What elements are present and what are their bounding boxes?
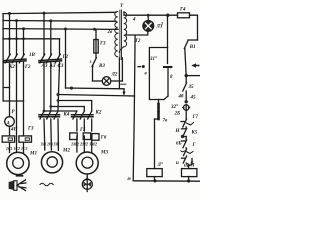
wire motor3 leads bbox=[76, 136, 78, 152]
fuse F3 lighting bbox=[94, 29, 98, 57]
svg-text:Г4: Г4 bbox=[179, 8, 186, 13]
contact blade bbox=[181, 150, 185, 153]
contactor K4 contacts (motor3) bbox=[72, 111, 94, 131]
wire interlock line to rail bbox=[58, 95, 135, 97]
right chain contacts bbox=[181, 64, 200, 168]
motor M2 bbox=[41, 152, 62, 173]
pump symbol bbox=[82, 175, 92, 192]
svg-text:35: 35 bbox=[188, 85, 195, 90]
plug socket symbol bbox=[184, 105, 189, 110]
svg-text:К5: К5 bbox=[191, 131, 198, 136]
motor M1 bbox=[7, 152, 29, 174]
svg-text:7в: 7в bbox=[163, 119, 169, 124]
switch V3 bbox=[91, 58, 96, 82]
wire bus L2 bbox=[3, 20, 116, 23]
thermal relay RT7 heater box bbox=[92, 134, 99, 141]
svg-text:ЛЗ: ЛЗ bbox=[156, 25, 163, 30]
svg-text:Т2: Т2 bbox=[135, 39, 141, 44]
ground arrow bbox=[121, 84, 126, 96]
svg-text:6Б: 6Б bbox=[176, 142, 183, 147]
node bus junctions bbox=[8, 12, 96, 41]
svg-text:А: А bbox=[6, 122, 11, 127]
wire bus L4 feeder bbox=[3, 38, 60, 40]
svg-text:4: 4 bbox=[132, 18, 136, 23]
svg-text:Г2: Г2 bbox=[24, 65, 31, 70]
contactor K1 lower contacts (motor2) bbox=[39, 111, 60, 151]
wire motor1 leads bbox=[9, 142, 11, 152]
svg-text:Г6: Г6 bbox=[100, 136, 107, 141]
svg-text:В3: В3 bbox=[98, 64, 105, 69]
svg-text:А3: А3 bbox=[49, 64, 56, 69]
lamp L3 signal (filled) bbox=[126, 14, 153, 35]
svg-text:1М1 2М1 3М1: 1М1 2М1 3М1 bbox=[41, 141, 60, 146]
svg-text:С3: С3 bbox=[58, 64, 64, 69]
contact N bbox=[182, 128, 186, 130]
svg-text:М3: М3 bbox=[100, 151, 108, 156]
svg-text:Л2: Л2 bbox=[111, 73, 118, 78]
contactor coil K1 bbox=[147, 169, 162, 177]
svg-text:1М2 2М2 3М2: 1М2 2М2 3М2 bbox=[71, 142, 98, 147]
wire bus L1 bbox=[3, 12, 116, 13]
wire lower strap bbox=[3, 100, 23, 102]
svg-text:Г3: Г3 bbox=[99, 42, 106, 47]
svg-text:з: з bbox=[89, 60, 92, 65]
svg-text:А3: А3 bbox=[41, 64, 48, 69]
plug connector 32 dashes bbox=[155, 100, 159, 169]
wire control left rail bbox=[133, 36, 135, 181]
svg-text:м: м bbox=[126, 177, 131, 182]
svg-text:Г3: Г3 bbox=[27, 127, 34, 132]
node with right stub bbox=[185, 74, 188, 77]
svg-text:К2: К2 bbox=[8, 65, 15, 70]
svg-text:2Б: 2Б bbox=[174, 112, 182, 117]
svg-text:М1: М1 bbox=[29, 152, 37, 157]
wire bottom rail bbox=[133, 180, 200, 182]
svg-text:и: и bbox=[176, 161, 179, 166]
fuse F4 bbox=[178, 13, 190, 18]
wire motor1 phase drops bbox=[9, 14, 11, 56]
grinding wheel symbol bbox=[9, 176, 26, 191]
transformer T secondary winding bbox=[124, 12, 127, 47]
svg-text:Л: Л bbox=[190, 164, 195, 169]
svg-text:К2: К2 bbox=[95, 111, 102, 116]
contact 6B bbox=[182, 140, 186, 142]
svg-text:32°: 32° bbox=[170, 105, 178, 110]
svg-text:31°: 31° bbox=[149, 57, 157, 62]
ammeter A bbox=[5, 117, 15, 127]
floating ref arrow bbox=[193, 64, 199, 67]
svg-text:Л°: Л° bbox=[157, 163, 163, 168]
switch V1 bbox=[184, 40, 197, 76]
svg-text:К4: К4 bbox=[63, 113, 70, 118]
wire left rail bbox=[2, 14, 4, 101]
svg-text:2в: 2в bbox=[107, 30, 114, 35]
wire bus L3 bbox=[3, 28, 118, 31]
node v (floating dot) bbox=[138, 66, 141, 68]
plug connector upper (bar+arrow) bbox=[164, 66, 174, 100]
contactor K1 main contacts (motor1 group) bbox=[4, 54, 26, 66]
coolant wave symbol bbox=[40, 183, 53, 186]
wire control feed to fuse F4 bbox=[124, 12, 178, 15]
thermal relay RT2 heater box bbox=[19, 136, 32, 142]
transformer T primary winding bbox=[115, 12, 118, 34]
wire ammeter branch stub bbox=[3, 87, 9, 89]
wire bypass box loop bbox=[149, 48, 167, 100]
node bbox=[185, 100, 188, 103]
lamp L2 local light bbox=[93, 58, 123, 89]
wire motor2 phase drops bbox=[43, 13, 45, 55]
svg-text:Г5: Г5 bbox=[79, 128, 86, 133]
svg-text:1В: 1В bbox=[29, 53, 36, 58]
wire motor1 phases to thermal bbox=[9, 66, 11, 117]
contact cluster bbox=[181, 121, 185, 123]
contact lower bbox=[182, 157, 186, 159]
contactor coil K2 bbox=[182, 169, 197, 177]
svg-text:4Н: 4Н bbox=[10, 128, 19, 133]
svg-text:В1: В1 bbox=[189, 45, 196, 50]
wire secondary ground line bbox=[66, 87, 125, 90]
thermal relay RT1 heater box bbox=[2, 136, 14, 142]
svg-text:45: 45 bbox=[190, 96, 197, 101]
middle chain: lamp branch down bbox=[167, 15, 169, 63]
svg-text:Г7: Г7 bbox=[192, 115, 199, 120]
motor M3 bbox=[76, 152, 98, 174]
transformer T core bbox=[119, 10, 121, 60]
svg-text:и: и bbox=[184, 164, 187, 169]
svg-text:4б: 4б bbox=[178, 95, 185, 100]
svg-text:Г2: Г2 bbox=[62, 55, 69, 60]
wire cascade feeds to motor3 contacts bbox=[44, 110, 77, 112]
thermal relay RT5 heater box bbox=[70, 133, 78, 140]
contactor K2 main contacts (motor2 group) bbox=[39, 54, 62, 110]
svg-text:М2: М2 bbox=[62, 149, 70, 154]
wire bus C drop to ground line bbox=[65, 29, 67, 88]
svg-text:1С1 1С2 1С3: 1С1 1С2 1С3 bbox=[6, 146, 28, 151]
switch 35 blade bbox=[183, 83, 187, 91]
thermal relay RT6 heater box bbox=[83, 133, 91, 140]
